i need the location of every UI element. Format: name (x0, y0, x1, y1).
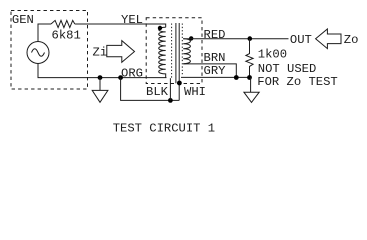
node: resistor top junction (248, 36, 253, 41)
svg-text:BRN: BRN (204, 51, 226, 65)
node: BRN/GRY junction (234, 75, 239, 80)
svg-text:WHI: WHI (184, 85, 206, 99)
arrow Zo (block arrow pointing left) (316, 29, 341, 49)
transformer primary winding (159, 27, 166, 77)
transformer T1 box (dashed) (146, 18, 202, 84)
svg-text:GRY: GRY (204, 64, 227, 78)
svg-text:6k81: 6k81 (52, 29, 81, 43)
shield left (dotted) (171, 24, 173, 79)
AC source V1 (sine generator) (27, 42, 49, 64)
svg-text:FOR Zo TEST: FOR Zo TEST (257, 75, 337, 89)
svg-text:OUT: OUT (290, 33, 312, 47)
ground (left) (92, 78, 108, 103)
svg-text:BLK: BLK (146, 85, 169, 99)
resistor R1 6k81 (51, 20, 75, 27)
svg-text:ORG: ORG (121, 67, 143, 81)
node: loop junction (118, 75, 123, 80)
transformer secondary winding (183, 39, 190, 64)
wire RED to OUT (183, 38, 288, 40)
wire BLK lead (shield) (169, 78, 171, 100)
svg-text:GEN: GEN (12, 13, 34, 27)
node: resistor bottom junction (247, 75, 252, 80)
svg-text:Zo: Zo (344, 33, 359, 47)
node: primary phase dot (158, 26, 162, 30)
node: secondary phase dot (189, 36, 193, 40)
ground (right) (244, 78, 259, 103)
wire source bottom rail (38, 64, 167, 78)
wire GRY rail (181, 76, 250, 78)
wire bottom loop to BLK/WHI (121, 78, 180, 101)
svg-text:NOT USED: NOT USED (258, 62, 317, 76)
svg-text:RED: RED (204, 28, 226, 42)
node: WHI junction (177, 81, 182, 86)
svg-text:YEL: YEL (121, 13, 143, 27)
arrow Zi (block arrow pointing right) (107, 41, 135, 63)
svg-text:1k00: 1k00 (258, 48, 287, 62)
wire BRN (183, 64, 236, 78)
svg-text:Zi: Zi (93, 46, 108, 60)
svg-text:TEST CIRCUIT 1: TEST CIRCUIT 1 (113, 121, 215, 135)
node: BLK junction (168, 98, 173, 103)
node: ground junction (98, 75, 103, 80)
wire source top (38, 24, 51, 42)
generator box GEN (dashed) (11, 11, 88, 90)
wire R1 to transformer primary (75, 24, 166, 27)
shield right (dotted) (181, 24, 183, 76)
resistor R2 1k00 (246, 39, 253, 78)
wire WHI lead (178, 83, 180, 100)
core lines (175, 23, 177, 83)
